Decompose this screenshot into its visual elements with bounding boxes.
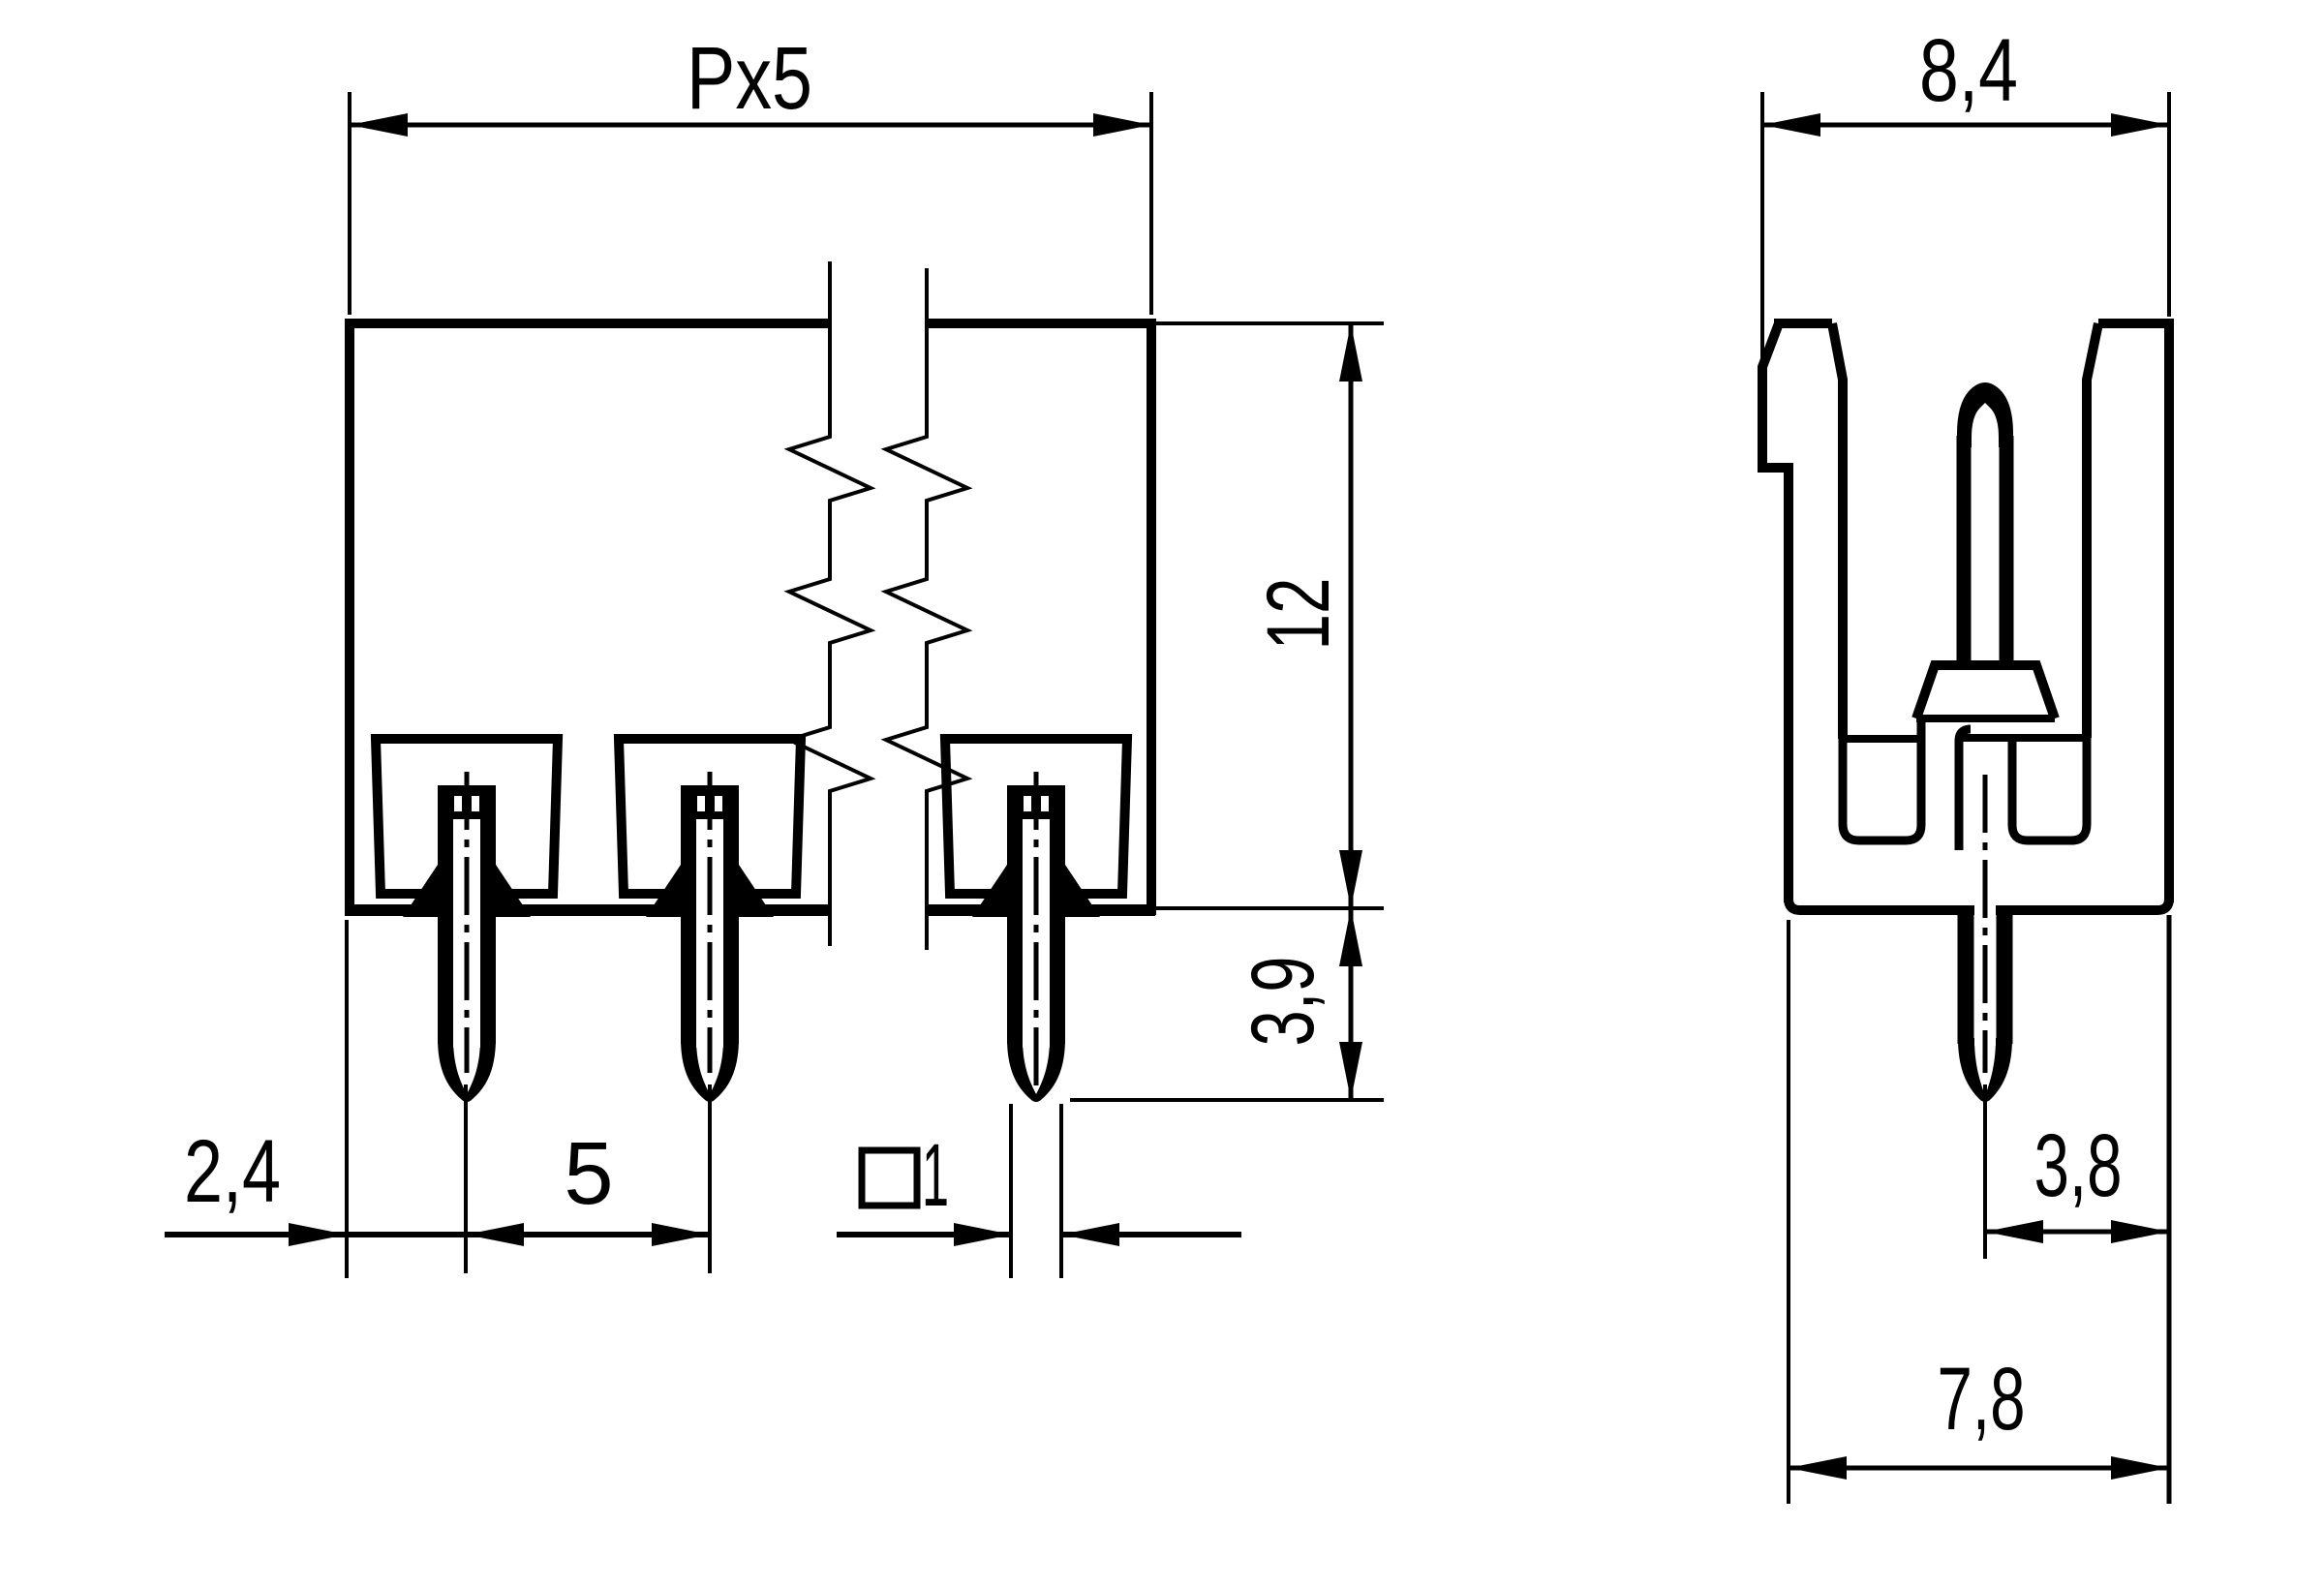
svg-text:3,9: 3,9 [1234,957,1332,1047]
svg-text:12: 12 [1249,578,1348,651]
svg-text:1: 1 [922,1126,949,1225]
break line right [886,268,967,950]
pin 1 flare [403,865,531,917]
dimension square-1 (pin cross-section) [837,1104,1241,1278]
pin 3 [1007,772,1065,1102]
dimension 12 [1156,323,1384,908]
side pin below body [1958,910,1974,1044]
svg-text:Px5: Px5 [687,29,812,128]
svg-text:2,4: 2,4 [184,1122,281,1221]
svg-text:5: 5 [564,1124,613,1223]
right pocket [2012,738,2087,840]
dimension Px5 [350,29,1151,315]
right wall inner edge [2087,323,2098,738]
pin 3 flare [972,865,1100,917]
pin slot right wall [1959,729,1971,850]
break line left [789,261,871,946]
shelf right [1959,734,2087,742]
body left edge [345,320,354,915]
svg-text:3,8: 3,8 [2034,1116,2123,1215]
pin 2 flare [646,865,774,917]
dimension 8,4 [1762,21,2169,358]
svg-text:7,8: 7,8 [1938,1350,2026,1449]
side pin collar [1916,665,2055,718]
side body bottom edge [1789,899,2169,910]
contact box 2 [619,739,801,894]
side pin dome tip [1957,382,2013,447]
dimension 2,4 [165,920,466,1278]
body right edge [1147,320,1156,915]
body top edge left segment [345,319,830,328]
side pin upper strokes [1957,436,1972,665]
left wall outer edge with latch step [1762,323,1789,902]
pin 1 [438,772,496,1102]
side wall top edges [1774,319,1832,328]
right wall outer edge [2164,320,2174,902]
body top edge right segment [927,319,1156,328]
contact box 3 [945,739,1127,894]
contact box 1 [376,739,558,894]
left wall inner edge [1832,323,1843,739]
dimension 3,9 [1070,908,1384,1100]
dimension 7,8 [1789,920,2169,1504]
body bottom edge right segment [927,904,1155,916]
dimension 3,8 [1985,915,2169,1504]
body bottom edge left segment [345,904,830,916]
side pin centerline [1983,775,1988,1073]
dimension 5 [466,1084,710,1273]
svg-text:8,4: 8,4 [1919,21,2018,120]
shelf left [1843,735,1921,743]
pin 2 [681,772,739,1102]
left pocket [1843,718,1921,840]
